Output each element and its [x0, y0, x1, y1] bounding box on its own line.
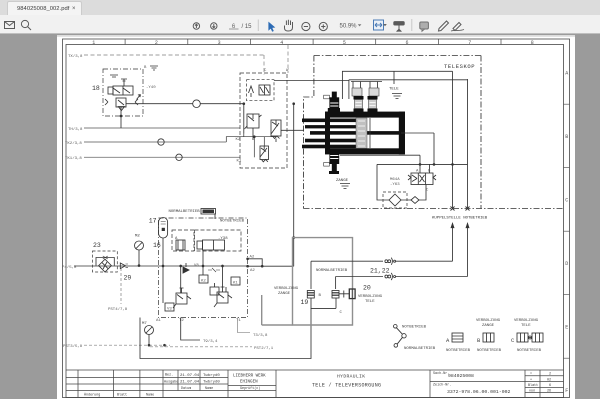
svg-text:50.9%: 50.9% — [340, 23, 358, 29]
svg-text:5: 5 — [343, 40, 346, 46]
svg-text:Geprüft(c): Geprüft(c) — [240, 386, 260, 391]
svg-text:3: 3 — [218, 40, 221, 46]
svg-text:NORMALBETRIEB: NORMALBETRIEB — [169, 210, 201, 214]
svg-text:984025008: 984025008 — [448, 373, 474, 379]
svg-text:-Y38: -Y38 — [218, 237, 228, 241]
svg-text:02: 02 — [547, 379, 551, 383]
svg-text:TX/3,8: TX/3,8 — [68, 54, 83, 59]
svg-text:V3: V3 — [167, 308, 172, 312]
svg-text:6: 6 — [405, 40, 408, 46]
svg-text:LIEBHERR WERK: LIEBHERR WERK — [233, 375, 266, 379]
svg-text:A2: A2 — [250, 269, 255, 273]
svg-text:/ 15: / 15 — [242, 24, 253, 30]
svg-text:-Y63: -Y63 — [390, 183, 400, 187]
svg-text:Änderung: Änderung — [84, 393, 100, 398]
svg-text:T2: T2 — [179, 319, 184, 323]
svg-text:D: D — [565, 261, 568, 267]
svg-text:B: B — [565, 134, 568, 140]
svg-text:ZANGE: ZANGE — [278, 292, 291, 296]
svg-text:TELE: TELE — [521, 324, 531, 328]
svg-text:Ausgabe: Ausgabe — [164, 379, 178, 384]
svg-text:Zeich-Nr.: Zeich-Nr. — [433, 383, 451, 388]
svg-text:TK2/3,8: TK2/3,8 — [65, 141, 82, 146]
svg-text:17: 17 — [149, 218, 157, 225]
svg-text:T1: T1 — [236, 319, 241, 323]
svg-text:K1: K1 — [237, 160, 242, 164]
svg-text:Datum: Datum — [181, 387, 191, 391]
svg-text:Twbryd0: Twbryd0 — [203, 373, 220, 378]
svg-text:21,22: 21,22 — [370, 268, 390, 275]
svg-text:Name: Name — [205, 387, 213, 391]
svg-text:4: 4 — [280, 40, 283, 46]
svg-text:A: A — [565, 71, 568, 77]
svg-text:E: E — [565, 325, 568, 331]
svg-text:ZANGE: ZANGE — [336, 179, 349, 183]
svg-text:M7: M7 — [142, 322, 147, 326]
svg-text:KUPPELSTELLE NOTBETRIEB: KUPPELSTELLE NOTBETRIEB — [432, 217, 488, 221]
svg-text:PST2/7,1: PST2/7,1 — [254, 346, 274, 351]
svg-text:T3/3,8: T3/3,8 — [253, 333, 268, 338]
svg-text:T9/3,4: T9/3,4 — [203, 339, 218, 344]
svg-text:F: F — [565, 388, 568, 394]
svg-text:NOTBETRIEB: NOTBETRIEB — [517, 349, 542, 353]
svg-text:ZANGE: ZANGE — [482, 324, 495, 328]
svg-text:8: 8 — [531, 40, 534, 46]
svg-text:16: 16 — [153, 242, 161, 249]
svg-text:29: 29 — [124, 275, 132, 282]
svg-text:1: 1 — [92, 40, 95, 46]
svg-text:21.07.04: 21.07.04 — [180, 374, 200, 378]
svg-text:Twbryd0: Twbryd0 — [203, 380, 220, 385]
svg-text:V8: V8 — [194, 264, 199, 268]
svg-text:VERBOLZUNG: VERBOLZUNG — [514, 319, 539, 323]
svg-text:HYDRAULIK: HYDRAULIK — [337, 374, 365, 380]
svg-text:TK1/3,8: TK1/3,8 — [65, 156, 82, 161]
svg-text:K2: K2 — [201, 280, 206, 284]
svg-text:PST4/7,8: PST4/7,8 — [108, 307, 128, 312]
svg-text:Name: Name — [146, 394, 154, 398]
svg-text:A1: A1 — [156, 319, 161, 323]
svg-text:Blatt: Blatt — [528, 383, 538, 388]
svg-text:NOTBETRIEB: NOTBETRIEB — [446, 349, 471, 353]
svg-text:Blatt: Blatt — [117, 393, 127, 398]
svg-text:M64A: M64A — [390, 178, 400, 182]
svg-text:Sach-Nr.: Sach-Nr. — [433, 371, 449, 376]
svg-text:TH/3,8: TH/3,8 — [68, 127, 83, 132]
svg-text:K1: K1 — [233, 282, 238, 286]
svg-text:21.07.04: 21.07.04 — [180, 381, 200, 385]
svg-text:C: C — [565, 198, 568, 204]
svg-text:2: 2 — [549, 373, 551, 377]
svg-text:2: 2 — [155, 40, 158, 46]
svg-text:19: 19 — [301, 299, 309, 306]
svg-text:26: 26 — [547, 390, 551, 394]
svg-text:TELE / TELEVERSORGUNG: TELE / TELEVERSORGUNG — [312, 383, 381, 389]
svg-text:TELESKOP: TELESKOP — [444, 63, 475, 70]
svg-text:+: + — [530, 379, 532, 383]
svg-text:VERBOLZUNG: VERBOLZUNG — [476, 319, 501, 323]
svg-text:3372-978.06.00.001-002: 3372-978.06.00.001-002 — [447, 389, 510, 395]
svg-text:=: = — [530, 373, 532, 377]
svg-text:20: 20 — [363, 285, 371, 292]
svg-text:18: 18 — [92, 85, 100, 92]
svg-text:7: 7 — [468, 40, 471, 46]
svg-text:NORMALBETRIEB: NORMALBETRIEB — [404, 347, 436, 351]
svg-text:Bez.: Bez. — [165, 374, 173, 378]
svg-text:NOTBETRIEB: NOTBETRIEB — [402, 326, 427, 330]
svg-text:-Y40: -Y40 — [146, 86, 156, 90]
svg-text:NOTBETRIEB: NOTBETRIEB — [477, 349, 502, 353]
svg-text:von: von — [529, 390, 535, 394]
svg-text:23: 23 — [93, 242, 101, 249]
svg-text:NORMALBETRIEB: NORMALBETRIEB — [316, 269, 348, 273]
svg-text:M2: M2 — [135, 235, 140, 239]
svg-text:EHINGEN: EHINGEN — [240, 381, 258, 385]
svg-text:PST3/5,8: PST3/5,8 — [63, 344, 83, 349]
svg-text:VERBOLZUNG: VERBOLZUNG — [274, 287, 299, 291]
svg-text:TELE: TELE — [389, 88, 399, 92]
svg-text:VERBOLZUNG: VERBOLZUNG — [358, 295, 383, 299]
svg-text:TELE: TELE — [365, 300, 375, 304]
svg-text:NOTBETRIEB: NOTBETRIEB — [220, 220, 245, 224]
svg-text:6: 6 — [549, 384, 551, 388]
